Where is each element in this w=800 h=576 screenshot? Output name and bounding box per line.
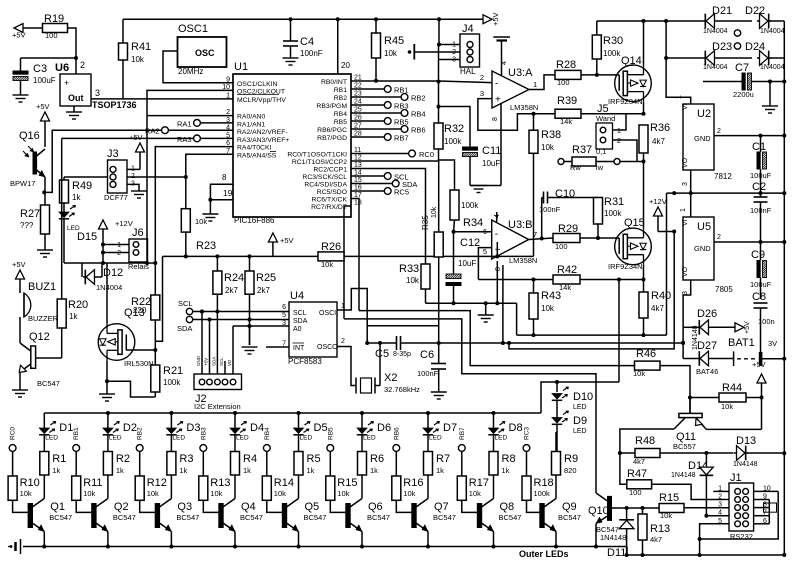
op-amp U3:B [492, 220, 529, 259]
resistor R10 [12, 451, 14, 476]
svg-text:OSC: OSC [195, 48, 215, 58]
resistor R34 [439, 149, 455, 190]
transistor Q6 [346, 504, 350, 528]
AC input terminals [734, 30, 740, 36]
svg-text:10k: 10k [337, 489, 349, 498]
Q13 source gnd [106, 360, 108, 381]
svg-text:LED: LED [109, 435, 122, 442]
wire emitter Q4 [234, 532, 236, 547]
svg-text:1N4004: 1N4004 [760, 28, 785, 35]
svg-text:LM358N: LM358N [510, 103, 538, 112]
svg-text:RB7: RB7 [459, 427, 466, 440]
regulator U5 [690, 193, 692, 217]
RB output circles [351, 88, 384, 90]
svg-text:2: 2 [617, 138, 621, 145]
svg-text:BAT1: BAT1 [728, 337, 755, 349]
svg-text:RB0/INT: RB0/INT [321, 79, 347, 86]
svg-text:RC5: RC5 [394, 188, 409, 197]
+5V arrow top rail [483, 15, 492, 24]
wire U3A plus [478, 99, 533, 131]
capacitor C4 [290, 19, 292, 41]
svg-text:4k7: 4k7 [651, 304, 664, 313]
svg-text:1: 1 [676, 95, 683, 99]
svg-text:100: 100 [45, 31, 58, 40]
svg-text:RC4/SDI/SDA: RC4/SDI/SDA [304, 182, 347, 189]
LED D1 [43, 413, 45, 428]
wire INT [266, 346, 289, 348]
svg-text:OSC1: OSC1 [178, 23, 208, 35]
svg-text:1N4004: 1N4004 [703, 64, 728, 71]
svg-text:7: 7 [533, 230, 537, 239]
svg-text:R15: R15 [659, 492, 679, 504]
svg-text:D11: D11 [607, 547, 626, 559]
U3A output [529, 75, 555, 90]
svg-text:D15: D15 [77, 231, 97, 243]
svg-text:4k7: 4k7 [650, 535, 662, 544]
U3B minus feedback [454, 231, 492, 233]
node DCF LED line [64, 262, 155, 264]
svg-text:Q10: Q10 [588, 505, 609, 517]
svg-text:D8: D8 [509, 422, 523, 434]
wire J4 pin1 to +5V rail [439, 19, 460, 44]
svg-text:BAT46: BAT46 [696, 367, 718, 376]
svg-text:1k: 1k [179, 466, 187, 475]
gnd bundle line [516, 303, 518, 335]
svg-text:SCL: SCL [219, 357, 224, 366]
LED top rail [44, 412, 541, 414]
svg-text:19: 19 [223, 188, 233, 198]
wire J4 pin3 to comparator [439, 59, 461, 61]
svg-text:1N4148: 1N4148 [671, 472, 696, 479]
svg-text:RB4: RB4 [334, 111, 347, 118]
wire RC7 down [344, 206, 351, 319]
svg-text:+5V: +5V [129, 133, 143, 142]
svg-text:R25: R25 [256, 272, 276, 284]
svg-text:1k: 1k [69, 312, 78, 321]
svg-text:RB1: RB1 [73, 427, 80, 440]
resistor R24 [216, 256, 218, 271]
LED D15 [59, 212, 69, 218]
U3B output [529, 238, 553, 240]
svg-text:R44: R44 [722, 382, 742, 394]
svg-text:RA3/AN3/VREF+: RA3/AN3/VREF+ [237, 137, 289, 144]
svg-text:U3:B: U3:B [508, 219, 532, 231]
capacitor C3 [21, 57, 77, 59]
resistor R9 [555, 432, 557, 452]
drain line R42 [478, 279, 553, 281]
resistor R1 [43, 435, 45, 452]
svg-text:7805: 7805 [715, 285, 733, 294]
svg-text:D27: D27 [697, 340, 717, 352]
svg-text:RB2: RB2 [137, 427, 144, 440]
svg-text:820: 820 [564, 466, 577, 475]
svg-text:2: 2 [80, 60, 85, 70]
svg-text:RA0/AN0: RA0/AN0 [237, 114, 266, 121]
resistor R30 [596, 21, 598, 35]
svg-text:R45: R45 [384, 35, 404, 47]
svg-text:100k: 100k [534, 489, 551, 498]
svg-text:X2: X2 [384, 372, 397, 384]
svg-text:RB7: RB7 [394, 134, 409, 143]
svg-text:10k: 10k [633, 369, 645, 378]
svg-text:R5: R5 [307, 453, 321, 465]
svg-text:C1: C1 [752, 141, 766, 153]
svg-text:RB5: RB5 [327, 427, 334, 440]
wire raw to U2 [666, 21, 691, 104]
svg-text:RB6/PGC: RB6/PGC [317, 127, 347, 134]
svg-text:J6: J6 [132, 227, 144, 239]
svg-text:+: + [64, 78, 69, 88]
svg-text:1: 1 [617, 128, 621, 135]
svg-text:+5V: +5V [12, 31, 26, 40]
svg-text:SDA: SDA [177, 324, 192, 333]
svg-text:10k: 10k [210, 489, 222, 498]
svg-text:C6: C6 [420, 349, 434, 361]
svg-text:Q2: Q2 [114, 501, 129, 513]
svg-text:3V: 3V [768, 339, 777, 348]
wire RA4 [155, 147, 233, 295]
svg-text:10k: 10k [721, 402, 733, 411]
svg-text:R9: R9 [564, 453, 578, 465]
svg-text:I2C Extension: I2C Extension [194, 402, 241, 411]
svg-text:1: 1 [680, 208, 687, 212]
svg-text:1k: 1k [502, 466, 510, 475]
svg-text:VI: VI [682, 219, 689, 226]
svg-text:R30: R30 [603, 35, 623, 47]
resistor R6 [361, 435, 363, 452]
svg-text:R2: R2 [116, 453, 130, 465]
transistor Q8 [477, 504, 481, 528]
svg-text:R15: R15 [337, 477, 357, 489]
svg-text:9: 9 [226, 76, 230, 83]
transistor Q7 [412, 504, 416, 528]
svg-text:RC6/TX/CK: RC6/TX/CK [311, 197, 347, 204]
svg-text:3: 3 [480, 89, 484, 98]
transistor Q3 [155, 504, 159, 528]
svg-text:U1: U1 [234, 61, 248, 73]
capacitor C11 [439, 107, 471, 148]
wire A0 ground [233, 325, 289, 327]
svg-text:SCL: SCL [293, 310, 307, 317]
svg-text:10k: 10k [83, 489, 95, 498]
svg-text:+12V: +12V [649, 197, 667, 206]
capacitor C5 [365, 341, 369, 345]
LED D10 [552, 394, 562, 400]
svg-text:A0: A0 [293, 326, 302, 333]
svg-text:D4: D4 [250, 422, 264, 434]
svg-text:RA1/AN1: RA1/AN1 [237, 122, 266, 129]
svg-text:C12: C12 [460, 237, 480, 249]
svg-text:R31: R31 [604, 196, 624, 208]
svg-text:Q9: Q9 [562, 501, 577, 513]
svg-text:D9: D9 [573, 415, 587, 427]
svg-text:R4: R4 [243, 453, 257, 465]
ground C4 [283, 57, 299, 59]
node RB7 [458, 445, 465, 452]
svg-text:2: 2 [718, 494, 722, 501]
svg-text:100k: 100k [163, 378, 181, 387]
resistor R13 [202, 451, 204, 476]
svg-text:100: 100 [555, 242, 568, 251]
top raw rail [597, 20, 703, 22]
LED D7 [427, 413, 429, 428]
diode D11 [626, 508, 628, 519]
transistor Q4 [219, 504, 223, 528]
ground bottom rail [20, 539, 22, 554]
svg-text:100nF: 100nF [539, 205, 561, 214]
RC0 circle [351, 153, 409, 155]
wire emitter Q8 [493, 532, 495, 547]
svg-text:BC547: BC547 [240, 513, 263, 522]
svg-text:RB3/PGM: RB3/PGM [316, 103, 347, 110]
svg-text:R1: R1 [52, 453, 66, 465]
svg-text:LED: LED [429, 435, 442, 442]
svg-text:100k: 100k [444, 137, 462, 146]
svg-text:R32: R32 [444, 123, 464, 135]
svg-text:R11: R11 [83, 477, 102, 489]
svg-text:OSCO: OSCO [317, 344, 338, 351]
svg-text:R47: R47 [627, 468, 647, 480]
svg-text:R48: R48 [635, 435, 655, 447]
svg-text:RC7/RX/DT: RC7/RX/DT [311, 204, 347, 211]
svg-text:RB4: RB4 [411, 110, 426, 119]
resistor R38 [533, 114, 535, 131]
Q12 base wire [36, 357, 62, 359]
svg-text:BC557: BC557 [673, 442, 696, 451]
svg-text:2k7: 2k7 [257, 286, 270, 295]
node RB5 [327, 445, 334, 452]
right rail [783, 21, 785, 555]
svg-text:LED: LED [495, 435, 508, 442]
svg-text:Q4: Q4 [241, 501, 256, 513]
svg-text:+5V: +5V [12, 260, 26, 269]
svg-text:R18: R18 [534, 477, 554, 489]
svg-text:8: 8 [492, 117, 499, 121]
svg-text:2: 2 [717, 234, 721, 241]
resistor R5 [298, 435, 300, 452]
svg-text:IRL530N: IRL530N [124, 359, 154, 368]
svg-text:100k: 100k [604, 209, 622, 218]
svg-text:LED: LED [573, 404, 587, 411]
svg-text:LM358N: LM358N [509, 256, 537, 265]
svg-text:1k: 1k [370, 466, 378, 475]
svg-text:+5V: +5V [204, 358, 209, 366]
Q13 gate wire [126, 349, 155, 351]
svg-text:7812: 7812 [714, 172, 732, 181]
svg-text:10uF: 10uF [458, 259, 476, 268]
svg-text:10k: 10k [195, 217, 207, 226]
svg-text:R16: R16 [403, 477, 423, 489]
svg-text:1N4004: 1N4004 [760, 64, 785, 71]
svg-text:C2: C2 [752, 181, 766, 193]
svg-text:R43: R43 [541, 290, 561, 302]
svg-text:INT: INT [293, 345, 305, 352]
svg-text:R20: R20 [68, 299, 88, 311]
svg-text:R42: R42 [557, 264, 577, 276]
R33 resistor [425, 263, 427, 264]
svg-text:D6: D6 [377, 422, 391, 434]
node RC0 [9, 445, 16, 452]
svg-text:C3: C3 [33, 63, 47, 75]
top +5V rail [123, 18, 483, 20]
wire RC6 down [351, 199, 359, 311]
5V line [714, 241, 784, 243]
svg-text:1: 1 [226, 92, 230, 99]
svg-text:100nF: 100nF [417, 369, 439, 378]
svg-text:LED: LED [573, 428, 587, 435]
resistor R22 [151, 295, 160, 320]
wire emitter Q9 [555, 532, 557, 547]
svg-text:1N4148: 1N4148 [600, 533, 626, 542]
svg-text:Q3: Q3 [177, 501, 192, 513]
svg-text:-: - [495, 79, 498, 90]
wire OSCI [337, 289, 367, 344]
ground C7 [769, 82, 771, 107]
svg-text:D13: D13 [736, 435, 756, 447]
svg-text:RB7/PGD: RB7/PGD [317, 135, 347, 142]
+5V arrow R44 [757, 374, 766, 383]
svg-text:BC547: BC547 [37, 379, 60, 388]
svg-text:-: - [495, 229, 498, 240]
svg-text:LED: LED [172, 435, 185, 442]
svg-text:RC0: RC0 [10, 427, 17, 440]
svg-text:10k: 10k [541, 304, 555, 313]
svg-text:1k: 1k [116, 466, 124, 475]
svg-text:RC3/SCK/SCL: RC3/SCK/SCL [302, 174, 347, 181]
svg-text:10k: 10k [384, 49, 398, 58]
svg-text:BC547: BC547 [113, 513, 136, 522]
svg-text:RA5/AN4/SS: RA5/AN4/SS [237, 152, 277, 159]
wire RC7 net to Q10 [344, 319, 596, 493]
wire R19 to U6 pin2 [68, 28, 77, 74]
svg-text:Rw: Rw [570, 163, 581, 172]
svg-text:BUZZER: BUZZER [28, 314, 59, 323]
svg-text:3: 3 [682, 182, 689, 186]
svg-text:RA3: RA3 [177, 135, 192, 144]
LED D2 [107, 413, 109, 428]
resistor R49 [63, 177, 65, 180]
svg-text:R39: R39 [557, 95, 577, 107]
node RB2 [136, 445, 143, 452]
svg-text:8-35p: 8-35p [393, 351, 411, 358]
svg-text:2: 2 [717, 128, 721, 135]
wire J3 pin2 DCF77 [127, 176, 186, 178]
regulator U2 [683, 104, 714, 170]
battery backup line [439, 342, 683, 344]
svg-text:10k: 10k [431, 206, 438, 218]
R20 resistor [61, 138, 63, 299]
svg-text:4: 4 [494, 214, 501, 218]
svg-text:VD: VD [227, 359, 232, 366]
Q13 drain up [106, 263, 108, 324]
svg-text:Q8: Q8 [500, 501, 515, 513]
node RB3 [200, 445, 207, 452]
svg-text:R3: R3 [179, 453, 193, 465]
svg-text:PIC16F886: PIC16F886 [234, 216, 275, 225]
R35 resistor [434, 232, 443, 257]
hall sensor mark [408, 50, 412, 54]
svg-text:+5V: +5V [744, 321, 751, 334]
U2 gnd line [714, 135, 784, 137]
svg-text:RB6: RB6 [411, 126, 426, 135]
svg-text:4: 4 [501, 61, 508, 65]
svg-text:BC547: BC547 [49, 513, 72, 522]
svg-text:Q7: Q7 [434, 501, 449, 513]
svg-text:Q5: Q5 [305, 501, 320, 513]
svg-text:R13: R13 [650, 523, 670, 535]
ground U6 [73, 106, 75, 112]
svg-text:3: 3 [718, 502, 722, 509]
connector J2 [194, 374, 242, 390]
LED D3 [170, 413, 172, 428]
svg-text:BC547: BC547 [367, 513, 390, 522]
svg-text:R40: R40 [651, 290, 671, 302]
svg-text:R17: R17 [469, 477, 489, 489]
svg-text:OSCI: OSCI [319, 310, 336, 317]
LED D6 [361, 413, 363, 428]
svg-text:RB2: RB2 [411, 94, 426, 103]
wire emitter Q5 [298, 532, 300, 547]
resistor R12 [139, 451, 141, 476]
svg-text:C8: C8 [752, 291, 766, 303]
svg-text:???: ??? [20, 221, 34, 230]
svg-text:RC3: RC3 [524, 427, 531, 440]
svg-text:C5: C5 [375, 348, 389, 360]
resistor R16 [395, 451, 397, 476]
svg-text:R35: R35 [421, 215, 430, 230]
wire emitter Q7 [427, 532, 429, 547]
svg-text:1k: 1k [72, 193, 81, 202]
svg-text:2: 2 [480, 73, 484, 82]
resistor R45 [375, 19, 377, 33]
svg-text:4k7: 4k7 [652, 137, 665, 146]
svg-text:HAL: HAL [460, 67, 476, 76]
wire J3 pin3 gnd [127, 184, 139, 191]
wire RC2 down to R33 [351, 169, 426, 264]
svg-text:Q6: Q6 [368, 501, 383, 513]
svg-text:5: 5 [282, 312, 286, 319]
svg-text:R27: R27 [20, 208, 40, 220]
svg-text:1N4148: 1N4148 [733, 461, 758, 468]
svg-text:D26: D26 [697, 308, 717, 320]
svg-text:RB6: RB6 [393, 427, 400, 440]
svg-text:+12V: +12V [115, 219, 133, 228]
Q11 collector wire [620, 429, 674, 453]
node RB1 [73, 445, 80, 452]
svg-text:20MHz: 20MHz [178, 67, 203, 76]
svg-text:2: 2 [117, 250, 121, 257]
LED D4 [234, 413, 236, 428]
resistor R21 [154, 350, 156, 365]
wire OSCO [337, 347, 356, 386]
wire RC6 net to R46 [359, 311, 596, 366]
resistor R40 [643, 280, 645, 293]
svg-text:RB3: RB3 [200, 427, 207, 440]
svg-text:RB1: RB1 [394, 86, 409, 95]
wire emitter Q6 [361, 532, 363, 547]
svg-text:D10: D10 [573, 391, 593, 403]
svg-text:R23: R23 [196, 240, 216, 252]
svg-text:R24: R24 [224, 272, 244, 284]
transistor Q1 [28, 504, 32, 528]
node RB4 [263, 445, 270, 452]
svg-text:RA4/T0CKI: RA4/T0CKI [237, 145, 271, 152]
svg-text:RA2: RA2 [145, 127, 160, 136]
outer led column [556, 382, 558, 392]
svg-text:10k: 10k [406, 276, 420, 285]
power +5V arrow left [14, 24, 23, 33]
svg-text:J3: J3 [107, 148, 119, 160]
